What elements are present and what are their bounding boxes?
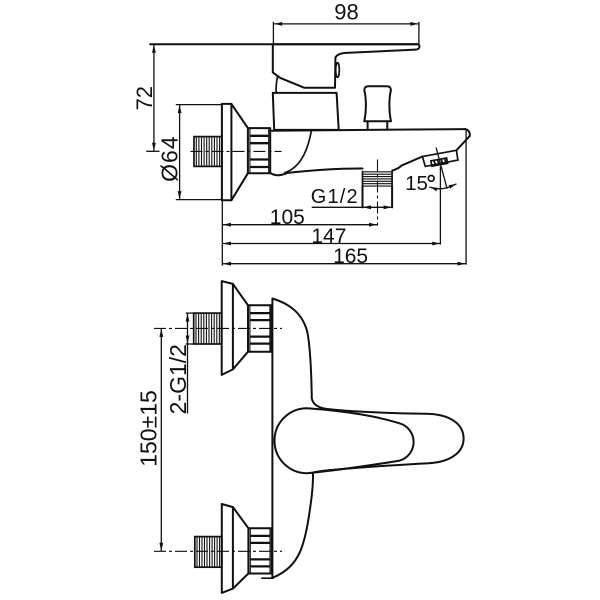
bottom flange cone: [233, 507, 249, 528]
spout underside right of outlet: [392, 157, 422, 171]
wall flange escutcheon disc (side): [222, 104, 232, 200]
threaded nipple (side): [194, 137, 222, 167]
dim G1/2 (outlet): [312, 206, 392, 208]
dim 105: [222, 224, 377, 226]
spout tip: [456, 129, 469, 150]
lever handle (front), inner stadium: [275, 408, 414, 473]
cartridge housing: [273, 93, 339, 130]
svg-text:165: 165: [333, 245, 368, 268]
svg-text:2-G1/2: 2-G1/2: [165, 344, 191, 414]
svg-text:105: 105: [270, 206, 305, 229]
svg-text:G1/2: G1/2: [311, 186, 359, 208]
shower outlet pipe: [362, 186, 364, 207]
dim diameter 64: [176, 104, 223, 106]
centerline of flange axis (side): [191, 150, 282, 152]
nipple edge extension lines: [186, 312, 194, 314]
lever handle body: [273, 44, 420, 87]
flange cone (side): [231, 104, 248, 128]
faucet body outline (front): [272, 299, 463, 578]
bottom knurled nut (front): [248, 528, 271, 573]
diverter knob: [364, 86, 391, 121]
aerator housing (15 deg tilted): [422, 150, 458, 166]
top knurled nut (front): [248, 305, 272, 351]
dim 2-G1/2: [187, 313, 189, 413]
svg-text:150±15: 150±15: [135, 390, 161, 467]
bottom threaded nipple (front): [195, 537, 222, 568]
handle hub left arc: [276, 77, 277, 93]
wire: handle top edge + extension line to 72 dim: [150, 43, 418, 45]
bottom flange centerline: [154, 550, 282, 552]
svg-text:15: 15: [405, 172, 428, 195]
shower outlet threads G1/2: [363, 172, 392, 186]
dim 72: [153, 45, 155, 152]
handle pivot oval: [336, 63, 340, 78]
svg-text:Ø64: Ø64: [157, 135, 183, 181]
wall reference extension line: [221, 200, 223, 265]
diverter knob base: [367, 121, 369, 130]
spout mouth lip (front, bottom): [262, 577, 273, 579]
svg-text:72: 72: [132, 86, 157, 110]
centerline of shower outlet: [377, 160, 379, 226]
body bottom + spout underside left: [271, 168, 363, 175]
body/spout inner fillet: [285, 131, 311, 173]
top wall flange escutcheon (front): [222, 281, 233, 375]
spout top edge: [272, 129, 466, 131]
knurled nut (side): [248, 128, 270, 173]
top threaded nipple (front): [194, 313, 222, 344]
15 deg tilted reference line: [436, 148, 447, 189]
dim 98: [272, 22, 274, 44]
dim 165: [465, 129, 467, 264]
aerator screen: [431, 158, 448, 166]
dim 150 +/- 15: [160, 328, 162, 551]
top flange cone: [233, 284, 248, 305]
svg-text:98: 98: [334, 0, 358, 25]
top flange centerline: [154, 327, 282, 329]
bottom wall flange escutcheon (front): [222, 504, 233, 593]
